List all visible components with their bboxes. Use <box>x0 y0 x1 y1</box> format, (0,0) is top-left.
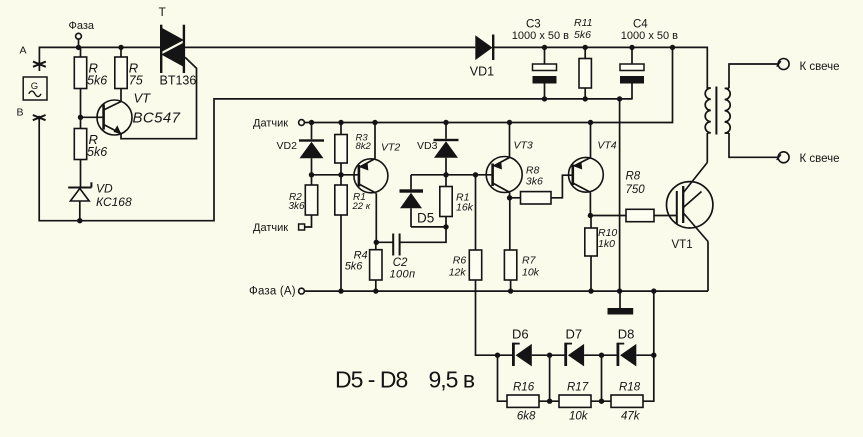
svg-text:100п: 100п <box>390 269 416 281</box>
svg-text:R8: R8 <box>626 171 641 183</box>
svg-text:9,5 в: 9,5 в <box>429 367 475 393</box>
svg-text:BC547: BC547 <box>133 109 181 126</box>
svg-text:R17: R17 <box>567 382 589 394</box>
svg-text:D5 - D8: D5 - D8 <box>335 367 407 393</box>
svg-text:1000 x 50 в: 1000 x 50 в <box>621 30 678 42</box>
svg-text:5k6: 5k6 <box>87 145 107 159</box>
svg-text:D7: D7 <box>566 327 583 342</box>
svg-text:12k: 12k <box>449 266 467 278</box>
svg-text:Фаза (А): Фаза (А) <box>249 285 296 297</box>
svg-text:3k6: 3k6 <box>526 176 543 188</box>
svg-text:C4: C4 <box>633 19 648 31</box>
svg-text:R6: R6 <box>453 255 467 267</box>
svg-text:5k6: 5k6 <box>87 74 107 88</box>
svg-text:К свече: К свече <box>800 153 840 165</box>
svg-text:47k: 47k <box>621 411 641 423</box>
svg-text:D5: D5 <box>417 211 434 226</box>
svg-text:BT136: BT136 <box>160 74 197 88</box>
svg-text:R7: R7 <box>522 255 537 267</box>
svg-text:10k: 10k <box>522 266 540 278</box>
svg-text:5k6: 5k6 <box>345 261 364 273</box>
svg-text:5k6: 5k6 <box>574 29 591 41</box>
svg-text:VD3: VD3 <box>417 140 438 152</box>
svg-text:R16: R16 <box>513 382 535 394</box>
svg-text:C3: C3 <box>526 19 541 31</box>
svg-text:A: A <box>20 45 27 57</box>
svg-text:VT1: VT1 <box>672 239 693 251</box>
svg-text:VD1: VD1 <box>470 65 494 79</box>
svg-text:750: 750 <box>626 184 646 196</box>
svg-text:Датчик: Датчик <box>253 222 288 234</box>
svg-text:6k8: 6k8 <box>517 411 536 423</box>
svg-text:C2: C2 <box>393 257 408 269</box>
svg-text:VT4: VT4 <box>597 140 616 152</box>
svg-text:Фаза: Фаза <box>69 20 95 32</box>
svg-text:8k2: 8k2 <box>356 141 372 152</box>
svg-text:К свече: К свече <box>800 61 840 73</box>
svg-text:16k: 16k <box>456 202 474 214</box>
svg-text:D8: D8 <box>618 327 635 342</box>
svg-text:VD: VD <box>96 181 113 195</box>
svg-text:75: 75 <box>129 74 143 88</box>
svg-text:R18: R18 <box>619 382 641 394</box>
svg-text:Датчик: Датчик <box>253 117 288 129</box>
svg-text:T: T <box>159 5 167 19</box>
svg-text:G: G <box>31 81 38 92</box>
svg-text:10k: 10k <box>569 411 589 423</box>
svg-text:R11: R11 <box>574 17 592 29</box>
svg-text:КС168: КС168 <box>96 195 132 209</box>
svg-text:B: B <box>17 107 24 119</box>
svg-text:1000 x 50 в: 1000 x 50 в <box>512 30 569 42</box>
svg-text:VT3: VT3 <box>514 140 533 152</box>
svg-text:VD2: VD2 <box>277 140 298 152</box>
svg-text:D6: D6 <box>512 327 529 342</box>
svg-text:22 к: 22 к <box>352 201 371 212</box>
svg-text:VT: VT <box>134 91 152 106</box>
svg-text:VT2: VT2 <box>381 142 400 154</box>
svg-text:3k6: 3k6 <box>289 201 306 212</box>
svg-text:1k0: 1k0 <box>598 238 615 250</box>
